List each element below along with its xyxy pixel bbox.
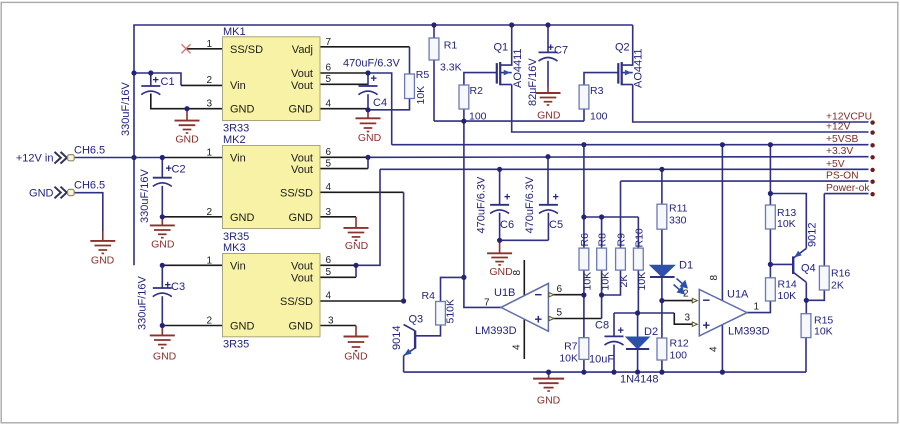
op-amp U1B LM393D <box>475 270 563 351</box>
svg-text:10K: 10K <box>415 86 427 105</box>
wire C7 bottom lead <box>547 61 549 87</box>
svg-text:3: 3 <box>685 313 691 324</box>
wire R6 column from +5VSB <box>583 145 585 217</box>
wire gate drive line R1-R2-R3 <box>434 120 584 122</box>
svg-text:PS-ON: PS-ON <box>826 171 859 182</box>
wire MK1 Vout to +5VSB rail <box>368 73 392 145</box>
wire Q4 collector to R15 <box>805 282 807 313</box>
transistor Q2 AO4411 mosfet <box>615 25 645 88</box>
svg-text:Vadj: Vadj <box>292 44 313 56</box>
svg-text:10K: 10K <box>778 290 797 302</box>
svg-text:+5VSB: +5VSB <box>826 134 858 145</box>
wire R16 bottom to R15 node <box>806 290 824 300</box>
svg-text:+12V in: +12V in <box>16 153 54 165</box>
resistor R7 <box>559 338 588 365</box>
svg-text:+: + <box>553 192 559 204</box>
ground under MK3 pin3 <box>344 326 369 351</box>
op-amp U1A LM393D <box>683 275 770 353</box>
wire U1A pin4 line <box>721 325 723 372</box>
wire MK3 pin2 stub <box>162 325 223 327</box>
svg-text:Vout: Vout <box>291 152 313 164</box>
capacitor C5 <box>524 176 563 234</box>
MK3 module box <box>206 242 334 351</box>
ground under C4 <box>356 110 381 132</box>
svg-text:R5: R5 <box>416 69 430 81</box>
capacitor C4 <box>343 58 401 110</box>
wire MK2 pin4 SS/SD stub <box>320 191 404 193</box>
wire U1A pin3 jog <box>674 313 692 324</box>
svg-text:2K: 2K <box>831 280 844 292</box>
svg-text:Q2: Q2 <box>615 42 630 54</box>
transistor Q1 AO4411 mosfet <box>494 25 525 88</box>
wire U1B output riser <box>464 121 501 307</box>
svg-text:R4: R4 <box>422 290 436 302</box>
svg-text:R10: R10 <box>634 228 646 247</box>
svg-text:+: + <box>504 192 510 204</box>
svg-text:GND: GND <box>537 110 561 122</box>
rail Power-ok right segment <box>824 193 868 195</box>
MK1 module box <box>206 26 331 135</box>
wire top +12V bus <box>134 25 633 265</box>
svg-text:GND: GND <box>230 104 255 116</box>
capacitor C2 <box>139 158 186 224</box>
svg-text:470uF/6.3V: 470uF/6.3V <box>343 58 401 70</box>
wire R10 bottom lead <box>637 270 639 313</box>
svg-text:10K: 10K <box>559 353 578 365</box>
wire MK2 SS/SD down to MK3 SS/SD <box>403 192 405 301</box>
svg-text:Vout: Vout <box>291 164 313 176</box>
resistor R1 <box>429 38 462 74</box>
svg-text:4: 4 <box>512 344 523 350</box>
svg-text:SS/SD: SS/SD <box>230 44 263 56</box>
resistor R16 <box>819 266 850 292</box>
wire MK3 Vout join <box>355 265 357 277</box>
svg-text:2K: 2K <box>618 275 630 288</box>
svg-text:CH6.5: CH6.5 <box>74 179 105 191</box>
svg-text:+: + <box>535 312 543 327</box>
wire MK2 pin2 stub <box>162 216 223 218</box>
svg-text:3.3K: 3.3K <box>440 62 462 74</box>
svg-text:10K: 10K <box>636 272 648 291</box>
svg-text:Vin: Vin <box>230 260 246 272</box>
svg-text:+: + <box>703 318 711 333</box>
wire D2 leads <box>637 313 639 337</box>
wire r6-r8-r10 top link <box>584 216 638 218</box>
wire MK2 pin5 stub <box>320 168 368 170</box>
wire U1B pin4 stub <box>523 319 525 359</box>
svg-text:GND: GND <box>175 134 199 146</box>
resistor R3 <box>579 85 608 123</box>
svg-text:C4: C4 <box>373 97 387 109</box>
svg-text:Vout: Vout <box>291 260 313 272</box>
svg-text:GND: GND <box>153 351 177 363</box>
svg-text:10K: 10K <box>582 272 594 291</box>
svg-text:GND: GND <box>489 266 513 278</box>
wire D1 cathode to node <box>661 277 663 301</box>
rail PS-ON <box>621 180 869 182</box>
svg-text:+: + <box>165 280 171 292</box>
resistor R12 <box>657 338 689 362</box>
svg-text:3: 3 <box>326 207 332 218</box>
svg-text:GND: GND <box>289 104 314 116</box>
wire R13 top from +5VSB <box>769 145 771 205</box>
ground at U1B supply <box>487 240 512 265</box>
resistor R10 <box>633 228 648 290</box>
wire C4 bottom to R5 bottom <box>368 99 410 110</box>
wire MK1 pin1 stub <box>186 48 223 50</box>
svg-text:6: 6 <box>326 63 332 74</box>
wire R7 leads <box>583 295 585 338</box>
svg-text:C3: C3 <box>171 281 185 293</box>
wire R8 bottom lead <box>601 270 603 295</box>
resistor R11 <box>657 203 688 230</box>
wire MK3 pin5 stub <box>320 276 356 278</box>
svg-text:9012: 9012 <box>807 223 819 247</box>
wire MK3 pin1 stub <box>162 264 223 266</box>
svg-text:2: 2 <box>206 207 212 218</box>
wire MK3 pin6 stub <box>320 264 356 266</box>
wire MK2 pin1 stub <box>162 157 223 159</box>
svg-text:−: − <box>535 287 543 302</box>
svg-text:6: 6 <box>326 255 332 266</box>
wire MK3 pin4 SS/SD stub <box>320 300 404 302</box>
wire C8 D2 pin3 line <box>614 312 674 314</box>
rail +12VCPU <box>633 85 869 123</box>
svg-text:D2: D2 <box>644 326 658 338</box>
wire pin5 node jog <box>601 295 603 319</box>
resistor R5 <box>405 69 430 105</box>
ground under MK1 pin3 <box>175 109 200 133</box>
wire U1A output to R14 <box>747 301 770 313</box>
svg-text:3R33: 3R33 <box>223 123 249 135</box>
svg-text:+12V: +12V <box>826 122 850 133</box>
svg-text:C1: C1 <box>161 76 175 88</box>
wire R8 top lead <box>601 217 603 248</box>
svg-text:R11: R11 <box>669 203 688 215</box>
wire MK1 Vin jog <box>134 73 181 85</box>
capacitor C3 <box>137 265 186 330</box>
svg-text:5: 5 <box>557 308 563 319</box>
svg-text:+: + <box>153 75 159 87</box>
rail +3.3V <box>368 156 869 159</box>
wire R11 column from +5V <box>661 169 663 204</box>
svg-text:+: + <box>618 325 624 337</box>
svg-text:GND: GND <box>289 212 314 224</box>
svg-text:3: 3 <box>206 99 212 110</box>
svg-text:470uF/6.3V: 470uF/6.3V <box>524 176 536 234</box>
svg-text:Vout: Vout <box>291 68 313 80</box>
svg-text:MK1: MK1 <box>223 26 246 38</box>
svg-text:Q1: Q1 <box>494 42 509 54</box>
svg-text:4: 4 <box>326 182 332 193</box>
wire C8 leads <box>613 313 615 336</box>
svg-text:10K: 10K <box>814 326 833 338</box>
wire R9 from PS-ON <box>620 181 622 248</box>
svg-text:C8: C8 <box>595 320 609 332</box>
wire R6 leads <box>583 217 585 248</box>
capacitor C1 <box>120 73 175 136</box>
svg-text:4: 4 <box>709 346 720 352</box>
wire R2 leads and Q1 gate <box>463 109 465 121</box>
svg-text:8: 8 <box>709 275 720 281</box>
rail +5VSB <box>392 144 869 146</box>
svg-text:GND: GND <box>289 321 314 333</box>
svg-text:5: 5 <box>326 159 332 170</box>
svg-text:7: 7 <box>484 298 490 309</box>
svg-text:470uF/6.3V: 470uF/6.3V <box>476 176 488 234</box>
wire MK3 pin3 stub <box>320 325 356 327</box>
rail +5V <box>380 168 869 170</box>
svg-text:10uF: 10uF <box>589 354 614 366</box>
svg-text:SS/SD: SS/SD <box>280 187 313 199</box>
svg-text:R9: R9 <box>616 233 628 247</box>
svg-text:R1: R1 <box>444 40 458 52</box>
ground under C3 <box>150 326 175 349</box>
svg-text:+5V: +5V <box>826 159 845 170</box>
svg-text:10K: 10K <box>599 272 611 291</box>
wire U1B pin8 stub <box>523 260 525 296</box>
svg-text:R12: R12 <box>670 338 689 350</box>
wire MK1 pin3 stub <box>151 94 223 109</box>
capacitor C6 <box>476 176 515 234</box>
svg-text:R2: R2 <box>470 85 484 97</box>
svg-text:330uF/16V: 330uF/16V <box>120 82 132 136</box>
svg-text:GND: GND <box>358 132 382 144</box>
resistor R4 <box>422 290 457 325</box>
svg-text:GND: GND <box>230 212 255 224</box>
diode D2 1N4148 <box>620 326 659 386</box>
svg-text:2: 2 <box>206 316 212 327</box>
wire U1A pin2 <box>662 300 692 302</box>
svg-text:Vout: Vout <box>291 80 313 92</box>
resistor R2 <box>459 85 487 123</box>
wire R11 to D1 <box>661 229 663 265</box>
svg-text:Vin: Vin <box>230 80 246 92</box>
wire GND connector drop <box>74 193 103 231</box>
svg-text:100: 100 <box>590 111 608 123</box>
no-connect X on MK1 pin1 <box>182 44 191 53</box>
wire gnd bus <box>404 371 806 373</box>
wire MK2 pin6 stub <box>320 156 368 158</box>
svg-text:C5: C5 <box>549 219 563 231</box>
svg-text:2: 2 <box>683 289 689 300</box>
svg-text:CH6.5: CH6.5 <box>74 145 105 157</box>
svg-text:R16: R16 <box>831 268 850 280</box>
wire R1 bottom lead <box>433 60 435 121</box>
wire R14 top to base node <box>769 264 771 277</box>
svg-text:GND: GND <box>537 395 561 407</box>
svg-text:GND: GND <box>151 239 175 251</box>
svg-text:D1: D1 <box>679 260 693 272</box>
svg-text:+: + <box>548 42 554 54</box>
svg-text:MK2: MK2 <box>223 134 246 146</box>
svg-text:MK3: MK3 <box>223 242 246 254</box>
wire R10 top lead <box>637 217 639 248</box>
transistor Q3 9014 <box>391 314 423 356</box>
svg-text:2: 2 <box>206 75 212 86</box>
svg-text:10K: 10K <box>777 218 796 230</box>
wire MK2 pin3 stub <box>320 216 356 218</box>
resistor R8 <box>597 233 612 291</box>
capacitor C8 <box>589 320 624 366</box>
resistor R9 <box>616 233 631 288</box>
svg-text:AO4411: AO4411 <box>633 48 645 88</box>
svg-text:3: 3 <box>328 316 334 327</box>
svg-text:330: 330 <box>669 215 687 227</box>
svg-text:C7: C7 <box>554 45 568 57</box>
svg-text:1: 1 <box>206 39 212 50</box>
svg-text:1: 1 <box>754 302 760 313</box>
wire U1B pin5 <box>554 318 602 320</box>
svg-text:4: 4 <box>326 291 332 302</box>
wire R13 bottom lead <box>769 229 771 264</box>
wire MK3 Vout up to +5V rail <box>356 169 380 265</box>
svg-text:330uF/16V: 330uF/16V <box>139 169 151 223</box>
wire +12Vin to bus <box>74 157 163 159</box>
connector +12V in <box>16 145 105 165</box>
svg-text:Power-ok: Power-ok <box>826 183 870 194</box>
rail +12V <box>512 85 869 133</box>
wire base node to Q4 <box>770 263 793 265</box>
svg-text:GND: GND <box>344 351 368 363</box>
capacitor C7 <box>527 42 568 106</box>
svg-text:9014: 9014 <box>391 326 403 350</box>
svg-text:R7: R7 <box>564 341 578 353</box>
ground under MK2 pin3 <box>344 217 369 241</box>
wire MK1 pin5 stub <box>320 83 368 85</box>
svg-text:C2: C2 <box>172 164 186 176</box>
wire R12 leads <box>661 301 663 338</box>
wire R3 leads and Q2 gate <box>583 109 585 121</box>
svg-text:R6: R6 <box>579 233 591 247</box>
svg-text:C6: C6 <box>500 219 514 231</box>
svg-text:330uF/16V: 330uF/16V <box>137 276 149 330</box>
svg-text:100: 100 <box>670 350 688 362</box>
svg-text:6: 6 <box>326 147 332 158</box>
svg-text:GND: GND <box>345 240 369 252</box>
svg-text:U1B: U1B <box>494 287 515 299</box>
wire MK2 Vout join <box>367 157 369 168</box>
svg-text:1: 1 <box>206 148 212 159</box>
svg-text:LM393D: LM393D <box>728 326 770 338</box>
wire U1A pin8 power line <box>721 145 723 301</box>
svg-text:R8: R8 <box>597 233 609 247</box>
wire Q3 emitter drop <box>403 356 405 372</box>
resistor R6 <box>579 233 594 291</box>
wire MK1 pin2 stub <box>181 84 223 86</box>
wire R4 bottom to Q3 collector <box>415 325 440 336</box>
svg-text:R3: R3 <box>590 85 604 97</box>
wire C5/C6 gnd link <box>500 239 549 241</box>
svg-text:3R35: 3R35 <box>223 339 249 351</box>
svg-text:5: 5 <box>326 74 332 85</box>
wire R9 bottom lead <box>602 270 621 295</box>
wire C6 column <box>499 169 501 205</box>
svg-text:Q4: Q4 <box>801 263 816 275</box>
svg-text:510K: 510K <box>444 299 456 324</box>
svg-text:LM393D: LM393D <box>475 325 517 337</box>
svg-text:7: 7 <box>326 37 332 48</box>
wire R15 bottom to bus <box>805 338 807 373</box>
wire R4 top branch <box>441 277 464 301</box>
ground main bus <box>533 372 564 391</box>
svg-text:4: 4 <box>326 99 332 110</box>
ground under C7 <box>536 87 561 105</box>
ground under input connector <box>90 231 115 253</box>
resistor R15 <box>801 314 833 338</box>
svg-text:Vout: Vout <box>291 272 313 284</box>
svg-text:U1A: U1A <box>727 289 749 301</box>
svg-text:1: 1 <box>206 255 212 266</box>
connector GND in <box>29 179 105 199</box>
resistor R13 <box>766 205 797 230</box>
svg-text:+: + <box>371 73 377 85</box>
svg-text:SS/SD: SS/SD <box>280 296 313 308</box>
svg-text:R14: R14 <box>778 279 797 291</box>
svg-text:5: 5 <box>326 267 332 278</box>
svg-text:AO4411: AO4411 <box>512 48 524 88</box>
svg-text:Vin: Vin <box>230 152 246 164</box>
svg-text:GND: GND <box>230 321 255 333</box>
svg-text:82uF/16V: 82uF/16V <box>527 58 539 106</box>
svg-text:Q3: Q3 <box>409 314 424 326</box>
svg-text:6: 6 <box>557 284 563 295</box>
wire MK1 pin7 Vadj to R5 <box>320 46 410 48</box>
wire C5 column <box>547 157 549 205</box>
svg-text:1N4148: 1N4148 <box>620 374 659 386</box>
diode D1 LED <box>650 260 693 294</box>
wire R1 top lead <box>433 25 435 38</box>
wire C7 top lead <box>547 25 549 52</box>
MK2 module box <box>206 134 331 243</box>
resistor R14 <box>766 278 797 302</box>
ground under C2 <box>150 217 175 238</box>
svg-text:−: − <box>703 292 711 307</box>
svg-text:+3.3V: +3.3V <box>826 146 853 157</box>
svg-text:GND: GND <box>91 255 115 267</box>
wire MK1 pin4 stub <box>320 108 368 110</box>
wire Power-ok left segment to Q4 emitter <box>770 194 806 249</box>
svg-text:8: 8 <box>512 270 523 276</box>
wire MK1 pin6 stub <box>320 72 368 74</box>
svg-text:100: 100 <box>469 111 487 123</box>
svg-text:GND: GND <box>29 188 54 200</box>
wire R16 top to Power-ok <box>823 194 825 266</box>
transistor Q4 9012 <box>793 223 818 283</box>
wire U1B pin6 <box>554 294 584 296</box>
